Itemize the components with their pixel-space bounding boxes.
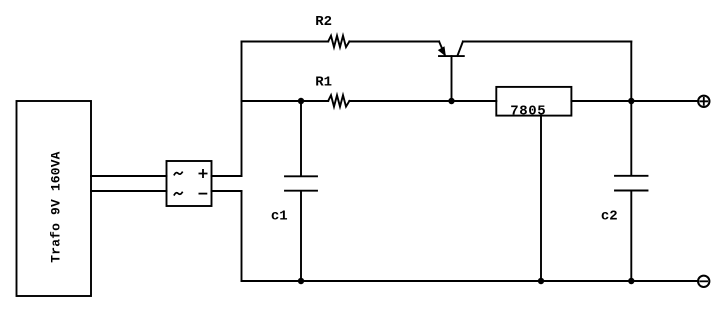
svg-text:R2: R2 [315,14,332,30]
svg-text:7805: 7805 [510,104,546,120]
svg-text:c2: c2 [601,208,618,224]
svg-text:c1: c1 [271,208,288,224]
svg-text:Trafo 9V 160VA: Trafo 9V 160VA [49,151,64,262]
svg-text:R1: R1 [315,74,332,90]
